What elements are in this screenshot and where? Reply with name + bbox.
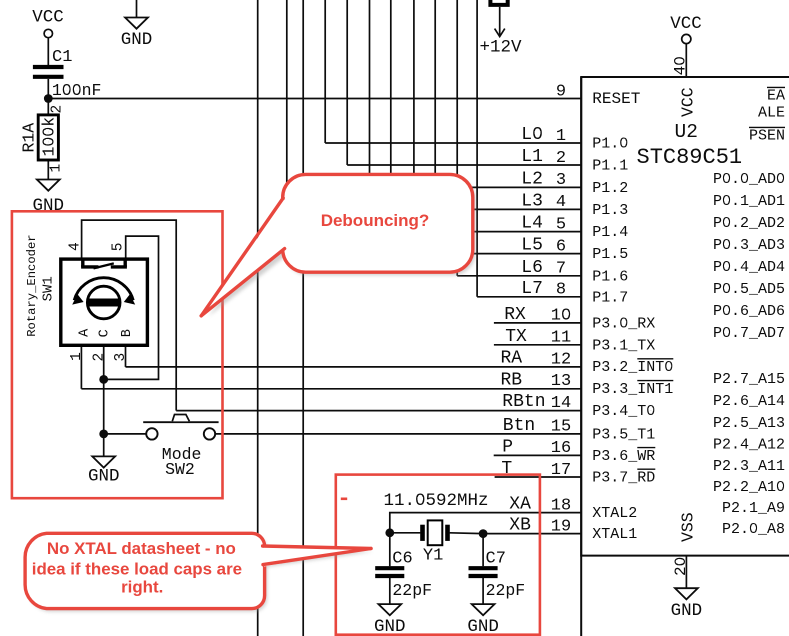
svg-text:3: 3 xyxy=(113,353,129,362)
svg-text:P0.6_AD6: P0.6_AD6 xyxy=(713,303,785,320)
svg-text:P3.1_TX: P3.1_TX xyxy=(592,337,655,354)
svg-text:R1A: R1A xyxy=(20,123,39,153)
svg-text:11.0592MHz: 11.0592MHz xyxy=(384,491,489,511)
U2 pin 11 P3.1_TX xyxy=(551,329,656,355)
ground GND below C7 xyxy=(467,604,499,636)
svg-text:B: B xyxy=(120,329,135,337)
svg-text:VCC: VCC xyxy=(32,8,64,28)
wire net TX to U2 xyxy=(494,344,581,346)
U2 pin 9 RESET xyxy=(556,82,640,108)
svg-text:P1.5: P1.5 xyxy=(592,246,628,263)
svg-text:1: 1 xyxy=(69,352,85,361)
callout bubble Debouncing? xyxy=(201,174,475,316)
wire net P / off-page vertical wire xyxy=(302,0,304,636)
rotary encoder SW1 xyxy=(25,234,148,361)
wire net L1 vertical wire xyxy=(346,0,348,165)
wire C7 to GND xyxy=(482,578,484,604)
svg-text:VCC: VCC xyxy=(679,87,698,117)
U2 right pin P2.4_A12 xyxy=(713,436,785,453)
svg-text:C7: C7 xyxy=(486,549,506,568)
wire unterminated vertical wire (hidden behind callout) xyxy=(286,0,288,205)
wire net L0 to U2 xyxy=(325,142,581,144)
svg-text:U2: U2 xyxy=(675,121,698,143)
annotation box around rotary encoder xyxy=(12,211,223,498)
wire R1A to GND xyxy=(47,160,49,180)
U2 right pin EA xyxy=(767,87,785,104)
U2 pin 18 XTAL2 xyxy=(551,496,638,522)
wire XA junction to C6 xyxy=(389,533,391,566)
wire C6 to GND xyxy=(389,578,391,604)
svg-text:RBtn: RBtn xyxy=(502,392,545,412)
svg-text:GND: GND xyxy=(121,30,153,50)
svg-text:40: 40 xyxy=(672,56,690,75)
ground GND below R1A xyxy=(33,180,65,217)
svg-text:RA: RA xyxy=(501,349,523,369)
U2 pin 13 P3.3_INT1 xyxy=(551,372,674,398)
svg-text:C6: C6 xyxy=(392,549,412,568)
svg-text:P0.2_AD2: P0.2_AD2 xyxy=(713,215,785,232)
op-amp U2 STC89C51 microcontroller body xyxy=(581,56,789,636)
annotation dash mark xyxy=(341,497,347,500)
connector J (cut off at top) xyxy=(490,0,507,5)
svg-text:TX: TX xyxy=(505,327,527,347)
U2 pin 10 P3.0_RX xyxy=(551,307,656,333)
svg-text:4: 4 xyxy=(68,242,84,251)
wire net L4 vertical wire xyxy=(413,0,415,232)
U2 pin 14 P3.4_T0 xyxy=(551,394,656,420)
svg-text:P3.3_INT1: P3.3_INT1 xyxy=(592,381,673,398)
U2 right pin P0.7_AD7 xyxy=(713,325,785,342)
U2 pin 4 P1.3 xyxy=(556,193,628,219)
wire net L0 vertical wire xyxy=(324,0,326,143)
svg-text:L6: L6 xyxy=(521,258,543,278)
U2 right pin P0.1_AD1 xyxy=(713,193,785,210)
U2 pin 19 XTAL1 xyxy=(551,517,638,543)
power +12V arrow xyxy=(479,29,522,58)
wire SW1 pin 5 to GND junction xyxy=(104,236,159,379)
svg-text:P2.2_A10: P2.2_A10 xyxy=(713,479,785,496)
svg-text:11: 11 xyxy=(551,329,571,348)
svg-text:P2.7_A15: P2.7_A15 xyxy=(713,371,785,388)
U2 right pin P2.1_A9 xyxy=(722,500,785,517)
svg-text:22pF: 22pF xyxy=(486,581,526,600)
wire net Btn from SW2 pin 2 to U2 pin 15 xyxy=(215,433,581,435)
svg-text:P0.5_AD5: P0.5_AD5 xyxy=(713,281,785,298)
U2 right pin P2.2_A10 xyxy=(713,479,785,496)
svg-text:22pF: 22pF xyxy=(392,581,432,600)
svg-text:Btn: Btn xyxy=(503,416,535,436)
svg-text:19: 19 xyxy=(551,517,571,536)
U2 right pin P0.5_AD5 xyxy=(713,281,785,298)
svg-text:14: 14 xyxy=(551,394,571,413)
wire net XA from crystal to U2 pin 18 xyxy=(390,513,581,533)
svg-text:P0.4_AD4: P0.4_AD4 xyxy=(713,259,785,276)
svg-text:17: 17 xyxy=(551,461,571,480)
svg-text:P0.0_AD0: P0.0_AD0 xyxy=(713,171,785,188)
svg-text:2: 2 xyxy=(91,353,107,362)
svg-text:P1.3: P1.3 xyxy=(592,202,628,219)
svg-text:idea if these load caps are: idea if these load caps are xyxy=(32,560,242,579)
svg-text:SW1: SW1 xyxy=(41,276,57,301)
svg-text:XB: XB xyxy=(509,516,531,536)
wire net RX to U2 xyxy=(494,322,581,324)
wire net RBtn from SW1 pin 4 to U2 pin 14 xyxy=(82,220,177,411)
annotation box around crystal circuit xyxy=(336,475,540,635)
svg-text:STC89C51: STC89C51 xyxy=(637,145,743,170)
wire net L5 to U2 xyxy=(435,253,581,255)
U2 pin 16 P3.6_WR xyxy=(551,439,656,465)
U2 right pin P0.2_AD2 xyxy=(713,215,785,232)
svg-text:L3: L3 xyxy=(521,191,543,211)
svg-text:No XTAL datasheet - no: No XTAL datasheet - no xyxy=(47,539,236,558)
svg-text:XTAL1: XTAL1 xyxy=(592,526,637,543)
svg-text:15: 15 xyxy=(551,418,571,437)
svg-text:PSEN: PSEN xyxy=(749,128,785,145)
svg-text:P3.5_T1: P3.5_T1 xyxy=(592,427,655,444)
svg-text:100k: 100k xyxy=(39,117,58,157)
svg-text:6: 6 xyxy=(556,237,566,256)
wire net L2 to U2 xyxy=(370,186,582,188)
wire RESET net from C1 junction to U2 pin 9 xyxy=(48,98,581,100)
svg-text:8: 8 xyxy=(556,281,566,300)
svg-text:P1.2: P1.2 xyxy=(592,180,628,197)
svg-text:P3.6_WR: P3.6_WR xyxy=(592,448,655,465)
junction XA/Y1/C6 xyxy=(385,528,394,537)
svg-text:P2.3_A11: P2.3_A11 xyxy=(713,458,785,475)
svg-text:GND: GND xyxy=(88,467,120,487)
svg-text:T: T xyxy=(501,459,512,479)
ground GND below C6 xyxy=(374,604,406,636)
svg-text:L0: L0 xyxy=(521,125,543,145)
ground GND top center xyxy=(121,18,153,51)
wire SW1 pin 2 to GND xyxy=(103,347,105,456)
svg-text:+12V: +12V xyxy=(479,38,522,58)
svg-text:RESET: RESET xyxy=(592,90,640,108)
junction SW1 GND/SW2 xyxy=(99,430,108,439)
U2 right pin P0.0_AD0 xyxy=(713,171,785,188)
svg-text:L1: L1 xyxy=(521,147,543,167)
svg-text:9: 9 xyxy=(556,82,566,101)
capacitor C7 22pF xyxy=(469,549,526,600)
U2 pin 5 P1.4 xyxy=(556,215,628,241)
U2 right pin P2.3_A11 xyxy=(713,458,785,475)
wire net L1 to U2 xyxy=(347,164,581,166)
svg-text:13: 13 xyxy=(551,372,571,391)
svg-text:P3.0_RX: P3.0_RX xyxy=(592,316,655,333)
svg-text:VCC: VCC xyxy=(670,14,702,34)
svg-text:C: C xyxy=(97,329,112,337)
wire net L3 to U2 xyxy=(391,208,581,210)
svg-text:GND: GND xyxy=(671,601,703,621)
junction SW1 pin2/pin5 xyxy=(99,375,108,384)
svg-text:Y1: Y1 xyxy=(423,546,443,565)
svg-text:P2.4_A12: P2.4_A12 xyxy=(713,436,785,453)
U2 right pin P2.6_A14 xyxy=(713,393,785,410)
svg-text:P3.2_INT0: P3.2_INT0 xyxy=(592,359,673,376)
svg-text:GND: GND xyxy=(374,617,406,636)
push switch SW2 Mode xyxy=(143,415,218,480)
svg-text:P0.3_AD3: P0.3_AD3 xyxy=(713,237,785,254)
svg-text:7: 7 xyxy=(556,260,566,279)
U2 pin 7 P1.6 xyxy=(556,260,628,286)
svg-text:5: 5 xyxy=(110,243,126,252)
svg-text:5: 5 xyxy=(556,215,566,234)
svg-text:RB: RB xyxy=(501,370,523,390)
power VCC (top left) xyxy=(32,8,64,38)
U2 right pin P2.7_A15 xyxy=(713,371,785,388)
U2 pin 8 P1.7 xyxy=(556,281,628,307)
svg-text:18: 18 xyxy=(551,496,571,515)
svg-text:P0.1_AD1: P0.1_AD1 xyxy=(713,193,785,210)
wire connector J to +12V symbol xyxy=(499,7,501,36)
wire Y1 to crystal right xyxy=(450,532,484,535)
wire net RA from SW1 pin 3 to U2 pin 12 xyxy=(126,366,582,368)
U2 pin 15 P3.5_T1 xyxy=(551,418,656,444)
svg-text:4: 4 xyxy=(556,193,566,212)
U2 right pin P2.5_A13 xyxy=(713,415,785,432)
svg-text:3: 3 xyxy=(556,171,566,190)
svg-text:P1.0: P1.0 xyxy=(592,136,628,153)
U2 right pin ALE xyxy=(758,105,785,122)
svg-text:12: 12 xyxy=(551,350,571,369)
svg-text:right.: right. xyxy=(121,578,163,597)
ground GND below U2 VSS xyxy=(671,588,703,621)
svg-text:P2.6_A14: P2.6_A14 xyxy=(713,393,785,410)
U2 pin 12 P3.2_INT0 xyxy=(551,350,674,376)
U2 pin 1 P1.0 xyxy=(556,127,628,153)
svg-text:L5: L5 xyxy=(521,236,543,256)
svg-text:L2: L2 xyxy=(521,169,543,189)
crystal Y1 11.0592MHz xyxy=(384,491,489,566)
svg-text:XA: XA xyxy=(509,495,531,515)
svg-text:XTAL2: XTAL2 xyxy=(592,505,637,522)
SW1 top notch with shaft push switch xyxy=(81,259,84,267)
wire net L6 to U2 xyxy=(457,275,581,277)
U2 pin 3 P1.2 xyxy=(556,171,628,197)
U2 right pin P0.4_AD4 xyxy=(713,259,785,276)
wire net L7 vertical wire xyxy=(476,0,478,297)
wire crystal left to Y1 xyxy=(390,532,421,534)
svg-text:RX: RX xyxy=(504,305,526,325)
wire net L7 to U2 xyxy=(477,296,581,298)
U2 right pin PSEN xyxy=(749,127,785,144)
svg-text:GND: GND xyxy=(467,617,499,636)
svg-text:P2.0_A8: P2.0_A8 xyxy=(722,521,785,538)
U2 right pin P0.6_AD6 xyxy=(713,303,785,320)
wire GND junction to SW2 pin 1 xyxy=(104,433,147,435)
svg-text:P1.1: P1.1 xyxy=(592,158,628,175)
svg-text:P2.5_A13: P2.5_A13 xyxy=(713,415,785,432)
wire net L6 vertical wire xyxy=(456,0,458,276)
svg-text:2: 2 xyxy=(50,105,66,114)
svg-text:2: 2 xyxy=(556,149,566,168)
svg-text:VSS: VSS xyxy=(679,512,698,542)
U2 pin 17 P3.7_RD xyxy=(551,461,656,487)
svg-text:EA: EA xyxy=(767,88,785,105)
SW1 rotation arc arrow xyxy=(74,278,133,300)
svg-text:P3.4_T0: P3.4_T0 xyxy=(592,403,655,420)
svg-text:P1.4: P1.4 xyxy=(592,224,628,241)
wire net L3 vertical wire xyxy=(390,0,392,209)
wire top GND stub xyxy=(136,0,138,18)
svg-text:SW2: SW2 xyxy=(165,460,195,479)
svg-text:20: 20 xyxy=(672,557,690,576)
wire net RB from SW1 pin 1 to U2 pin 13 xyxy=(81,388,581,390)
junction RESET/C1/R1A xyxy=(44,94,53,103)
capacitor C6 22pF xyxy=(375,549,432,600)
svg-text:P: P xyxy=(502,437,513,457)
wire net P to U2 xyxy=(494,454,582,456)
U2 pin 6 P1.5 xyxy=(556,237,628,263)
svg-text:L7: L7 xyxy=(521,279,543,299)
svg-text:L4: L4 xyxy=(521,214,543,234)
resistor R1A 100k xyxy=(20,105,66,173)
svg-text:GND: GND xyxy=(33,196,65,216)
wire VCC to U2 pin 40 xyxy=(685,44,687,77)
svg-text:P1.6: P1.6 xyxy=(592,268,628,285)
svg-text:P0.7_AD7: P0.7_AD7 xyxy=(713,325,785,342)
capacitor C1 xyxy=(33,48,102,100)
wire C1 to junction / R1A xyxy=(47,79,49,115)
ground GND below SW1 xyxy=(88,456,120,486)
svg-text:ALE: ALE xyxy=(758,105,785,122)
wire net T / off-page vertical wire xyxy=(257,0,259,636)
wire XB junction to C7 xyxy=(482,534,484,567)
svg-text:10: 10 xyxy=(551,307,571,326)
wire net XB from crystal to U2 pin 19 xyxy=(483,533,581,535)
wire net L2 vertical wire xyxy=(369,0,371,187)
svg-text:C1: C1 xyxy=(52,48,72,67)
wire VCC to C1 xyxy=(47,38,49,65)
power VCC (at U2 pin 40) xyxy=(670,14,702,44)
callout bubble No XTAL datasheet xyxy=(25,533,373,611)
wire net L4 to U2 xyxy=(414,231,581,233)
svg-text:Debouncing?: Debouncing? xyxy=(321,211,430,230)
svg-text:1: 1 xyxy=(49,164,65,173)
svg-text:A: A xyxy=(78,328,93,337)
svg-text:P1.7: P1.7 xyxy=(592,289,628,306)
U2 right pin P2.0_A8 xyxy=(722,521,785,538)
SW1 rotor circle with slot xyxy=(87,286,120,319)
junction XB/Y1/C7 xyxy=(479,529,488,538)
svg-text:P3.7_RD: P3.7_RD xyxy=(592,470,655,487)
U2 pin 2 P1.1 xyxy=(556,149,628,175)
svg-text:Rotary_Encoder: Rotary_Encoder xyxy=(25,234,39,336)
wire net T to U2 xyxy=(495,476,582,478)
U2 right pin P0.3_AD3 xyxy=(713,237,785,254)
wire net L5 vertical wire xyxy=(434,0,436,254)
svg-text:16: 16 xyxy=(551,439,571,458)
wire U2 pin 20 VSS to GND xyxy=(685,556,687,589)
svg-text:P2.1_A9: P2.1_A9 xyxy=(722,500,785,517)
svg-text:1: 1 xyxy=(556,127,566,146)
